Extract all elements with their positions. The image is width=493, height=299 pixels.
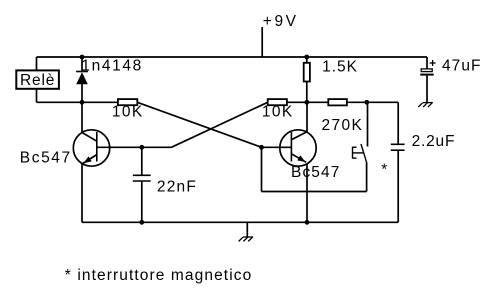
capacitor C3 2.2uF <box>391 144 405 222</box>
node +9V supply stub <box>261 27 263 57</box>
junction dot 1.5K top <box>304 55 309 60</box>
wire Q2 base node down <box>261 147 263 191</box>
capacitor C2 47uF polarized <box>420 69 433 103</box>
wire top rail corner to C2 <box>426 57 428 69</box>
switch S1 interruttore magnetico <box>353 102 368 191</box>
ground symbol under C2 <box>418 103 433 107</box>
svg-text:Relè: Relè <box>20 72 55 89</box>
svg-text:47uF: 47uF <box>442 57 482 74</box>
junction dot switch top node <box>364 100 369 105</box>
wire Q2 collector <box>306 102 308 132</box>
wire C3 top lead <box>397 102 399 144</box>
diode D1 1n4148 <box>76 57 88 102</box>
resistor R2 10K (right) <box>268 99 287 105</box>
svg-text:22nF: 22nF <box>157 179 197 196</box>
wire switch node to C3 <box>367 101 398 103</box>
wire cross-coupling diagonal R2 to Q1 base <box>171 102 267 147</box>
wire Q2 emitter <box>306 164 308 223</box>
wire R2 to collector node <box>287 101 307 103</box>
svg-text:1n4148: 1n4148 <box>81 58 142 75</box>
svg-text:1.5K: 1.5K <box>322 58 358 75</box>
capacitor C1 22nF <box>133 147 151 222</box>
relay K1 <box>16 70 59 88</box>
wire relay bottom lead <box>36 89 38 103</box>
wire relay top lead <box>36 57 38 70</box>
polarity plus sign C2 <box>430 60 436 66</box>
wire lower-left rail <box>37 101 118 103</box>
wire cross-coupling diagonal R1 to Q2 base <box>137 102 261 147</box>
junction dot diode bottom <box>80 100 85 105</box>
junction dot Q2 base node <box>259 145 264 150</box>
wire Q1 collector <box>81 102 83 133</box>
svg-text:+9V: +9V <box>263 13 299 30</box>
svg-text:270K: 270K <box>322 117 364 134</box>
svg-text:2.2uF: 2.2uF <box>412 133 456 150</box>
junction dot 22nF top <box>139 145 144 150</box>
resistor R1 10K (left) <box>118 99 137 105</box>
svg-text:Bc547: Bc547 <box>291 164 340 181</box>
wire +9V top rail <box>37 56 428 58</box>
junction dot 22nF bottom <box>139 220 144 225</box>
resistor R4 270K <box>307 99 367 105</box>
wire Q1 emitter <box>81 164 83 223</box>
svg-text:10K: 10K <box>112 104 144 121</box>
wire Q2 base <box>262 146 292 148</box>
transistor Q1 Bc547 <box>73 130 109 166</box>
transistor Q2 Bc547 <box>280 130 316 166</box>
junction dot Q2 emitter bottom <box>305 220 310 225</box>
svg-text:Bc547: Bc547 <box>20 150 72 167</box>
ground symbol bottom <box>239 237 254 241</box>
resistor R3 1.5K <box>304 57 310 102</box>
junction dot Q2 collector node <box>304 100 309 105</box>
svg-text:* interruttore magnetico: * interruttore magnetico <box>65 267 253 284</box>
svg-text:10K: 10K <box>262 104 294 121</box>
wire switch return to Q2 base <box>262 191 367 193</box>
svg-text:*: * <box>381 162 387 179</box>
wire ground stub <box>246 222 248 237</box>
wire ground rail bottom <box>82 221 398 223</box>
wire Q1 base <box>97 146 172 148</box>
junction dot diode top <box>80 55 85 60</box>
